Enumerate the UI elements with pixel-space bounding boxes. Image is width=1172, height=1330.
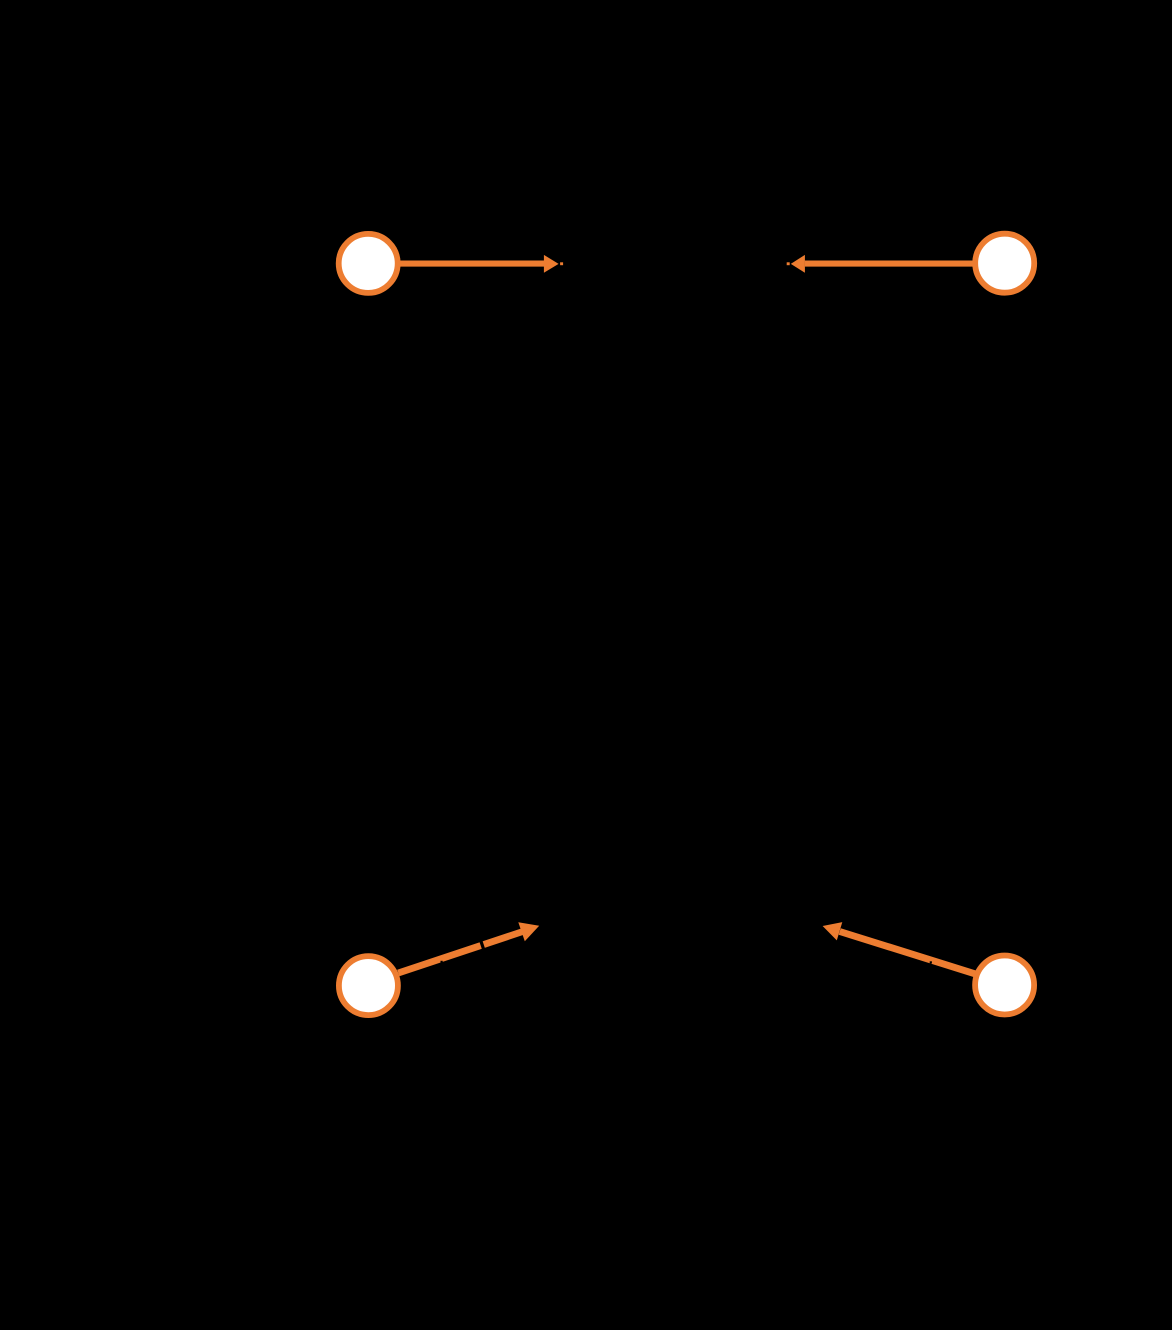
- black nick on bottom-right arrow lower edge: [930, 961, 932, 963]
- leader arrow top-left shaft: [399, 260, 544, 266]
- anchor dot top-left: [560, 262, 563, 265]
- leader arrow bottom-right head: [823, 922, 843, 940]
- black dash crossing bottom-left arrow: [479, 939, 486, 950]
- leader arrow top-right head: [791, 255, 805, 273]
- leader arrow bottom-left head: [518, 922, 539, 941]
- black nick on bottom-left arrow lower edge: [441, 961, 443, 963]
- callout circle top-left: [339, 234, 398, 293]
- callout circle bottom-right: [975, 956, 1034, 1015]
- leader arrow top-right shaft: [805, 260, 974, 266]
- leader arrow bottom-right shaft: [840, 932, 976, 974]
- anchor dot top-right: [787, 262, 790, 265]
- callout circle top-right: [975, 234, 1034, 293]
- leader arrow bottom-left shaft: [398, 932, 522, 973]
- leader arrow top-left head: [544, 255, 559, 273]
- callout circle bottom-left: [339, 956, 398, 1015]
